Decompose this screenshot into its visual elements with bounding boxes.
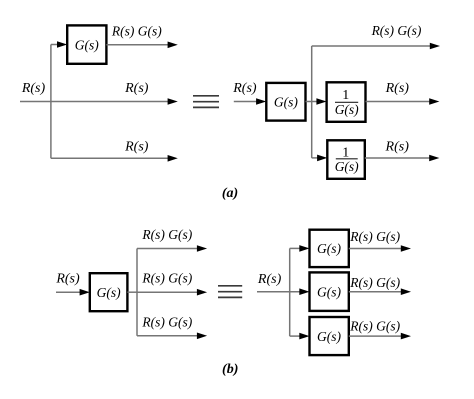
wire: (b)-right middle output with arrow bbox=[349, 288, 411, 295]
equivalence symbol (b) bbox=[218, 286, 242, 298]
wire: (a)-right bottom output with arrow bbox=[365, 155, 440, 162]
wire: (b)-left top branch with arrow bbox=[137, 245, 207, 252]
svg-text:R(s) G(s): R(s) G(s) bbox=[141, 271, 192, 286]
svg-text:R(s): R(s) bbox=[385, 139, 410, 154]
wire: (b)-right bottom output with arrow bbox=[349, 333, 411, 340]
wire: (b)-left pickoff vertical bbox=[136, 249, 138, 336]
block G(s) bottom (b)-right bbox=[310, 317, 349, 355]
svg-text:R(s) G(s): R(s) G(s) bbox=[349, 275, 400, 290]
svg-text:R(s): R(s) bbox=[55, 272, 80, 287]
svg-text:(a): (a) bbox=[222, 186, 238, 201]
wire: (b)-left middle branch with arrow bbox=[137, 289, 207, 296]
svg-text:R(s): R(s) bbox=[124, 81, 149, 96]
svg-text:G(s): G(s) bbox=[335, 102, 359, 117]
block 1/G(s) second (a)-right bbox=[327, 140, 365, 179]
wire: (a)-left G(s) output with arrow bbox=[106, 42, 177, 49]
svg-text:R(s) G(s): R(s) G(s) bbox=[111, 24, 162, 39]
block G(s) (a)-left bbox=[67, 25, 106, 63]
wire: (b)-right pickoff vertical bbox=[289, 248, 291, 336]
block G(s) middle (b)-right bbox=[310, 272, 349, 311]
svg-text:R(s) G(s): R(s) G(s) bbox=[141, 227, 192, 242]
wire: (a)-left bottom branch with arrow bbox=[51, 155, 178, 162]
block G(s) top (b)-right bbox=[310, 230, 349, 267]
svg-text:G(s): G(s) bbox=[335, 159, 359, 174]
svg-text:G(s): G(s) bbox=[274, 94, 298, 109]
svg-text:(b): (b) bbox=[222, 362, 238, 377]
wire: (b)-left input with arrow bbox=[56, 289, 90, 296]
wire: (a)-right pickoff vertical bbox=[311, 46, 313, 158]
block G(s) (b)-left bbox=[90, 273, 128, 311]
wire: (a)-right input with arrow bbox=[234, 98, 266, 105]
svg-text:R(s) G(s): R(s) G(s) bbox=[371, 23, 422, 38]
svg-text:R(s) G(s): R(s) G(s) bbox=[141, 315, 192, 330]
svg-text:R(s): R(s) bbox=[21, 81, 46, 96]
wire: (b)-right input with arrow into middle G bbox=[257, 288, 310, 295]
equivalence symbol (a) bbox=[193, 96, 219, 108]
svg-text:R(s) G(s): R(s) G(s) bbox=[349, 319, 400, 334]
wire: (b)-right bottom stub with arrow bbox=[290, 333, 310, 340]
svg-text:R(s): R(s) bbox=[257, 272, 282, 287]
wire: (a)-right G output to first 1/G with arrow bbox=[306, 98, 327, 105]
svg-text:G(s): G(s) bbox=[97, 285, 121, 300]
svg-text:R(s): R(s) bbox=[232, 81, 257, 96]
wire: (b)-left bottom branch with arrow bbox=[137, 333, 207, 340]
wire: (a)-right top branch with arrow bbox=[312, 43, 440, 50]
wire: (b)-right top stub with arrow bbox=[290, 245, 310, 252]
wire: (b)-right top output with arrow bbox=[349, 245, 411, 252]
wire: (a)-left main input line with arrow bbox=[20, 98, 178, 105]
wire: (a)-left pickoff vertical bbox=[50, 45, 52, 159]
block G(s) (a)-right bbox=[266, 83, 305, 121]
svg-text:G(s): G(s) bbox=[317, 284, 341, 299]
wire: (a)-right middle output with arrow bbox=[366, 98, 440, 105]
svg-text:1: 1 bbox=[342, 88, 349, 103]
svg-text:R(s): R(s) bbox=[124, 139, 149, 154]
wire: (a)-right bottom stub into 1/G with arrow bbox=[312, 155, 328, 162]
svg-text:G(s): G(s) bbox=[75, 37, 99, 52]
svg-text:R(s) G(s): R(s) G(s) bbox=[349, 229, 400, 244]
svg-text:R(s): R(s) bbox=[385, 81, 410, 96]
wire: (a)-left top stub into G(s) with arrow bbox=[51, 41, 67, 48]
block 1/G(s) first (a)-right bbox=[327, 82, 366, 122]
wire: (b)-left output to pickoff bbox=[127, 291, 137, 293]
svg-text:G(s): G(s) bbox=[317, 329, 341, 344]
svg-text:G(s): G(s) bbox=[317, 241, 341, 256]
